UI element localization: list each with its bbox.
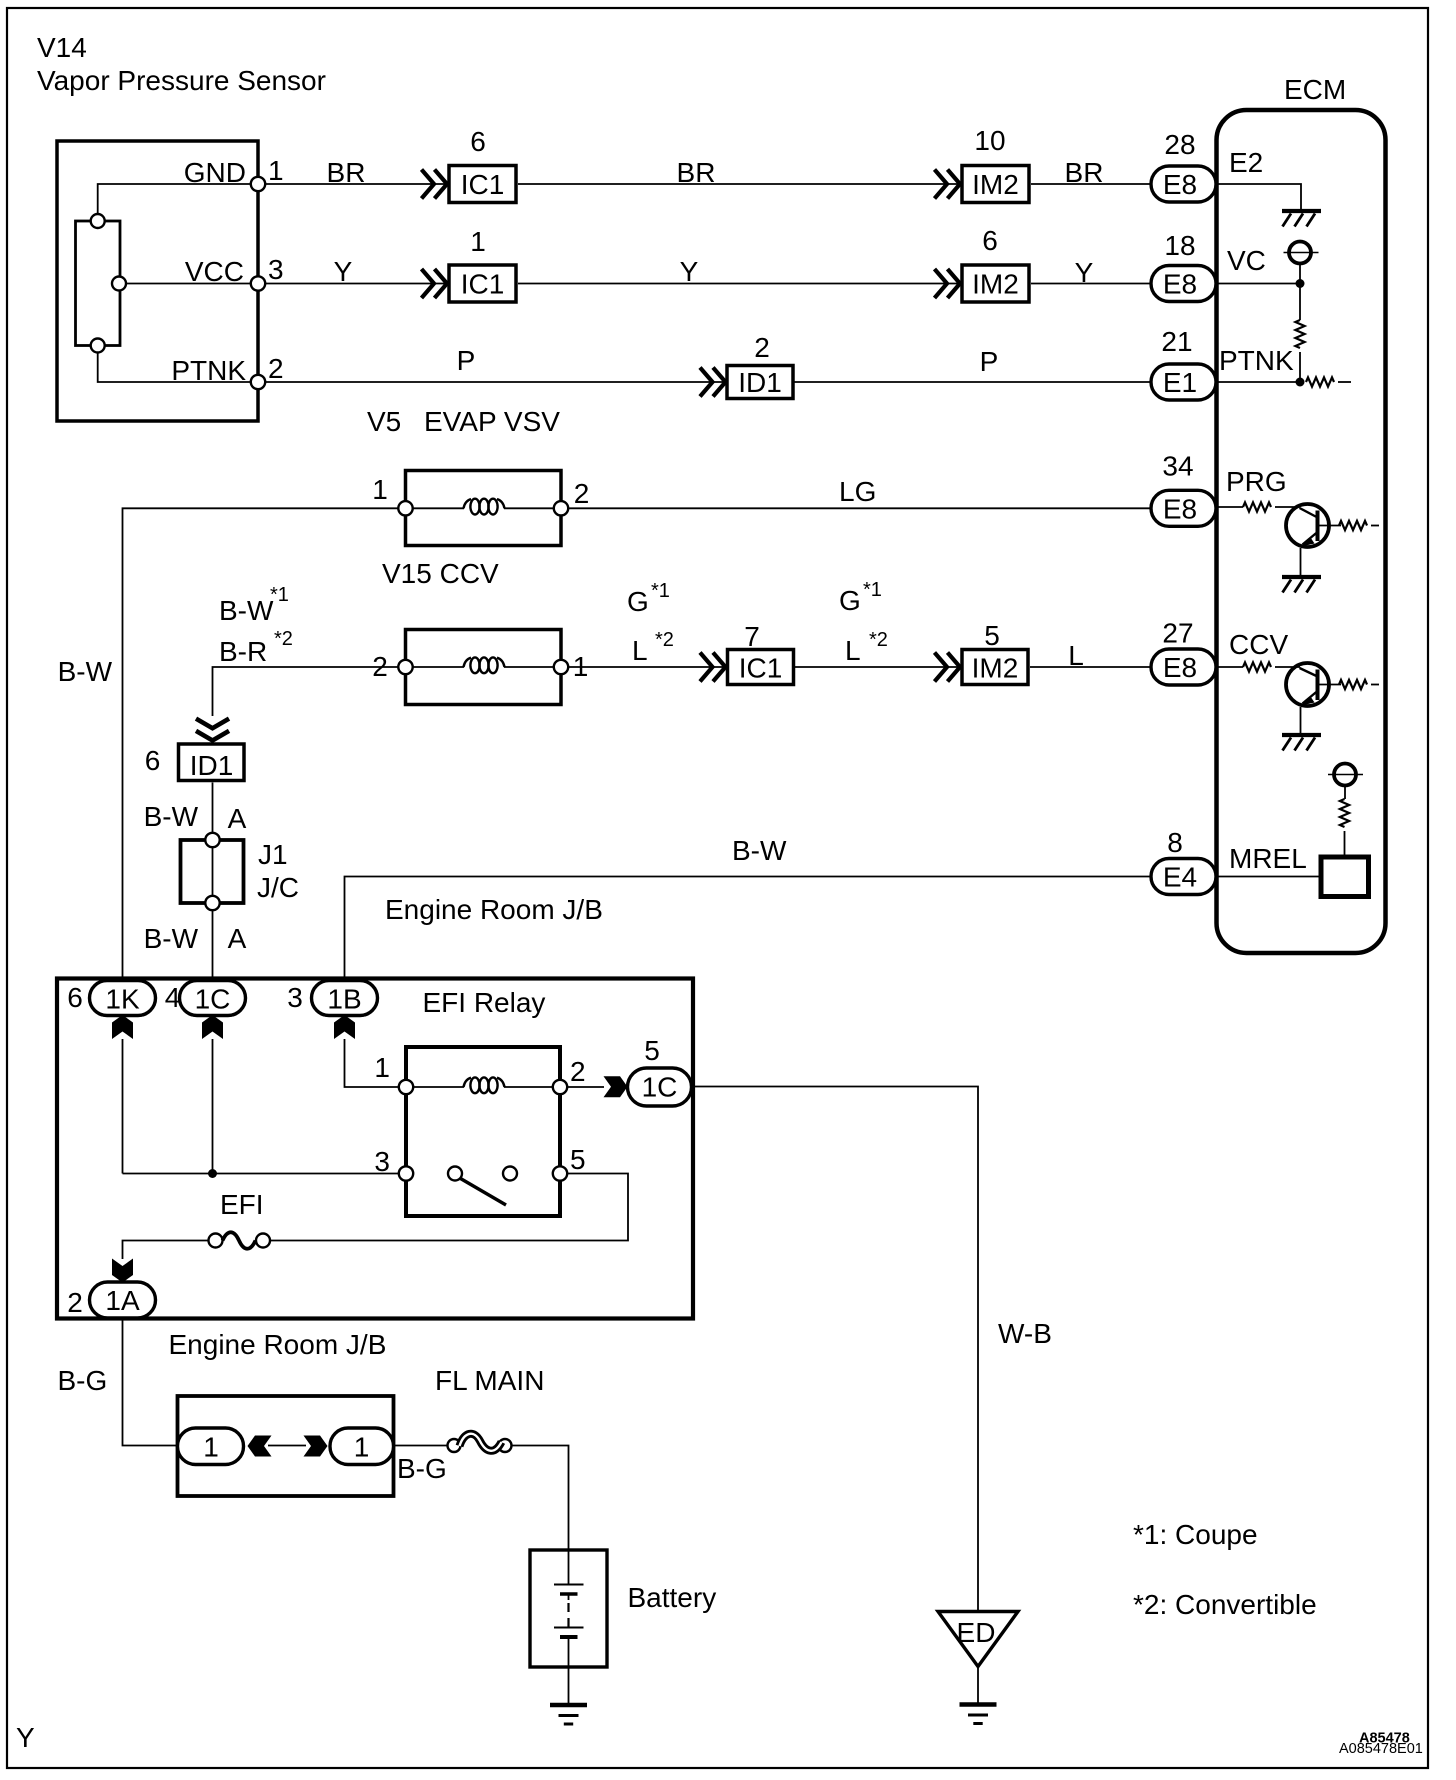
svg-text:Engine Room J/B: Engine Room J/B bbox=[169, 1329, 387, 1360]
ECM box bbox=[1217, 110, 1386, 953]
solenoid V5 pin 1 bbox=[398, 501, 412, 515]
solenoid V15 pin 2 bbox=[398, 660, 412, 674]
wire EFI fuse to 1A bbox=[123, 1241, 209, 1260]
wire IC1 to IM2 row2 bbox=[518, 283, 960, 285]
wire IC1 to IM2 row1 bbox=[518, 183, 960, 185]
svg-text:3: 3 bbox=[268, 254, 284, 285]
connector IC1 box row1 bbox=[449, 166, 516, 203]
wire E2 internal bbox=[1216, 184, 1301, 209]
svg-text:18: 18 bbox=[1164, 230, 1195, 261]
svg-text:1: 1 bbox=[268, 155, 284, 186]
connector IM2 box CCV bbox=[962, 650, 1028, 685]
solenoid V5 pin 2 bbox=[554, 501, 568, 515]
junction dot VC bbox=[1296, 279, 1305, 288]
svg-text:Engine Room J/B: Engine Room J/B bbox=[385, 894, 603, 925]
relay coil bbox=[464, 1077, 505, 1093]
connector arrows into IC1 CCV bbox=[700, 653, 726, 682]
svg-text:Y: Y bbox=[16, 1722, 35, 1753]
svg-text:E4: E4 bbox=[1163, 862, 1197, 893]
wire GND to IC1 bbox=[265, 183, 447, 185]
svg-text:*2: Convertible: *2: Convertible bbox=[1133, 1589, 1317, 1620]
wire IM2 to E8 CCV bbox=[1030, 666, 1151, 668]
internal resistor PRG base bbox=[1243, 502, 1271, 511]
chassis ground E2 bbox=[1282, 211, 1321, 227]
solenoid V5 coil bbox=[464, 499, 505, 515]
svg-text:21: 21 bbox=[1161, 326, 1192, 357]
svg-text:A: A bbox=[228, 923, 247, 954]
solenoid V5 coil wires bbox=[413, 507, 464, 509]
svg-text:1: 1 bbox=[354, 1432, 370, 1463]
svg-text:J1: J1 bbox=[258, 839, 288, 870]
earth ground ED bbox=[960, 1705, 997, 1724]
svg-text:1: 1 bbox=[374, 1052, 390, 1083]
svg-text:Y: Y bbox=[334, 256, 353, 287]
svg-text:PTNK: PTNK bbox=[1219, 345, 1294, 376]
junction dot 1C column bbox=[208, 1169, 217, 1178]
relay coil wires bbox=[413, 1086, 464, 1088]
svg-text:1B: 1B bbox=[327, 984, 361, 1015]
connector arrows into IM2 row1 bbox=[935, 170, 961, 199]
svg-text:2: 2 bbox=[268, 353, 284, 384]
svg-text:PTNK: PTNK bbox=[171, 355, 246, 386]
svg-text:J/C: J/C bbox=[257, 872, 299, 903]
wire 1K to relay pin 3 bbox=[123, 1173, 400, 1175]
svg-text:Battery: Battery bbox=[628, 1582, 717, 1613]
svg-text:E8: E8 bbox=[1163, 652, 1197, 683]
sensor V14 outer box bbox=[57, 141, 258, 421]
wire IM2 to E8 row2 bbox=[1031, 283, 1151, 285]
svg-text:28: 28 bbox=[1164, 129, 1195, 160]
svg-text:34: 34 bbox=[1162, 451, 1193, 482]
solenoid V15 coil bbox=[464, 657, 505, 673]
svg-text:EFI: EFI bbox=[220, 1189, 264, 1220]
sensor element terminal top bbox=[91, 214, 105, 228]
internal resistor VC-PTNK bbox=[1299, 284, 1301, 321]
solenoid V15 coil wires bbox=[413, 666, 464, 668]
sensor element terminal bottom bbox=[91, 339, 105, 353]
solenoid V15 box bbox=[406, 630, 562, 705]
connector oval E1 bbox=[1151, 364, 1216, 400]
connector ID1 box row3 bbox=[727, 366, 793, 399]
sensor pin 1 bbox=[251, 177, 265, 191]
wire PTNK internal bbox=[1216, 381, 1300, 383]
svg-text:3: 3 bbox=[287, 982, 303, 1013]
svg-text:FL MAIN: FL MAIN bbox=[435, 1365, 544, 1396]
wire relay pin 2 to 1C-5 bbox=[567, 1086, 604, 1088]
svg-text:BR: BR bbox=[677, 157, 716, 188]
junction J1 J/C box bbox=[181, 840, 244, 903]
ED ground triangle bbox=[938, 1612, 1018, 1667]
MREL coil wire up bbox=[1344, 831, 1346, 857]
connector arrows into ID1-6 bbox=[196, 719, 229, 741]
svg-text:GND: GND bbox=[184, 157, 246, 188]
svg-text:CCV: CCV bbox=[1229, 629, 1288, 660]
connector oval E8 row LG bbox=[1151, 490, 1216, 526]
fuse EFI bbox=[209, 1232, 271, 1249]
svg-text:*2: *2 bbox=[274, 628, 293, 650]
internal resistor CCV base bbox=[1243, 662, 1271, 671]
svg-text:3: 3 bbox=[374, 1146, 390, 1177]
svg-text:W-B: W-B bbox=[998, 1318, 1052, 1349]
svg-text:G: G bbox=[627, 586, 649, 617]
svg-text:IM2: IM2 bbox=[972, 169, 1019, 200]
junction dot PTNK bbox=[1296, 378, 1305, 387]
FL MAIN box bbox=[178, 1396, 394, 1496]
MREL power symbol circle bbox=[1334, 764, 1356, 786]
sensor element terminal mid bbox=[112, 277, 126, 291]
arrow into 1C-5 bbox=[604, 1076, 628, 1097]
wire V15 to IC1 CCV row bbox=[568, 666, 725, 668]
connector arrows into IC1 row1 bbox=[422, 170, 448, 199]
svg-text:27: 27 bbox=[1162, 618, 1193, 649]
svg-text:1K: 1K bbox=[105, 984, 140, 1015]
solenoid V15 pin 1 bbox=[554, 660, 568, 674]
battery internals bbox=[554, 1550, 584, 1703]
wire VCC to IC1 bbox=[265, 283, 447, 285]
relay switch blade bbox=[461, 1179, 507, 1206]
transistor CCV bbox=[1286, 663, 1341, 706]
chassis ground PRG bbox=[1282, 577, 1321, 593]
wire CCV emitter bbox=[1300, 707, 1302, 734]
svg-text:P: P bbox=[980, 346, 999, 377]
wire V5 to E8 row LG bbox=[568, 507, 1151, 509]
junction J1 terminal top bbox=[205, 833, 219, 847]
internal resistor PRG collector bbox=[1339, 521, 1367, 530]
wire J1 to 1C bbox=[212, 910, 214, 981]
wire B-W left vertical bbox=[123, 508, 399, 980]
svg-text:6: 6 bbox=[145, 745, 161, 776]
svg-text:P: P bbox=[457, 345, 476, 376]
svg-text:B-W: B-W bbox=[219, 595, 274, 626]
connector IM2 box row1 bbox=[962, 166, 1029, 203]
relay pin 3 bbox=[399, 1166, 413, 1180]
wire ED apex bbox=[977, 1667, 979, 1704]
svg-text:A: A bbox=[228, 803, 247, 834]
svg-text:A085478E01: A085478E01 bbox=[1339, 1741, 1423, 1757]
svg-text:BR: BR bbox=[1065, 157, 1104, 188]
junction J1 terminal bottom bbox=[205, 896, 219, 910]
svg-text:VCC: VCC bbox=[185, 256, 244, 287]
arrow into 1C bbox=[202, 1015, 223, 1039]
connector IM2 box row2 bbox=[962, 265, 1029, 302]
svg-text:V15 CCV: V15 CCV bbox=[382, 558, 499, 589]
fusible link FL MAIN bbox=[448, 1434, 512, 1452]
svg-text:8: 8 bbox=[1167, 827, 1183, 858]
wire 1A to FL MAIN bbox=[123, 1318, 178, 1446]
wire MREL internal bbox=[1216, 876, 1321, 878]
wire PRG internal bbox=[1216, 506, 1243, 508]
svg-text:7: 7 bbox=[744, 621, 760, 652]
svg-text:B-W: B-W bbox=[58, 656, 113, 687]
svg-text:ED: ED bbox=[957, 1617, 996, 1648]
svg-text:ID1: ID1 bbox=[190, 750, 234, 781]
connector oval 1C-5 bbox=[628, 1068, 692, 1106]
svg-text:Y: Y bbox=[680, 256, 699, 287]
svg-text:ECM: ECM bbox=[1284, 74, 1346, 105]
svg-text:MREL: MREL bbox=[1229, 843, 1307, 874]
svg-text:E8: E8 bbox=[1163, 169, 1197, 200]
chassis ground CCV bbox=[1282, 735, 1321, 751]
svg-text:1C: 1C bbox=[642, 1072, 678, 1103]
wire relay pin 5 to EFI fuse bbox=[270, 1174, 628, 1241]
solenoid V5 box bbox=[406, 471, 562, 546]
connector oval E8 row1 bbox=[1151, 166, 1216, 202]
svg-text:PRG: PRG bbox=[1226, 466, 1287, 497]
arrow into 1A bbox=[112, 1259, 133, 1283]
svg-text:V14: V14 bbox=[37, 32, 87, 63]
wire between FL arrows bbox=[268, 1445, 306, 1447]
svg-text:L: L bbox=[632, 635, 648, 666]
svg-text:10: 10 bbox=[974, 125, 1005, 156]
connector oval 1B bbox=[312, 981, 378, 1016]
arrow right FL bbox=[304, 1436, 328, 1457]
svg-text:*1: *1 bbox=[651, 580, 670, 602]
connector oval FL-1 right bbox=[330, 1428, 394, 1465]
VC power symbol circle bbox=[1289, 242, 1311, 264]
sensor pin 3 bbox=[251, 276, 265, 290]
svg-text:IM2: IM2 bbox=[972, 653, 1019, 684]
svg-text:E8: E8 bbox=[1163, 269, 1197, 300]
wire IC1 to IM2 CCV bbox=[795, 666, 960, 668]
relay pin 2 bbox=[553, 1080, 567, 1094]
earth ground battery bbox=[550, 1705, 587, 1724]
svg-text:E1: E1 bbox=[1163, 367, 1197, 398]
svg-text:2: 2 bbox=[574, 478, 590, 509]
internal resistor PTNK right bbox=[1306, 377, 1334, 386]
connector oval FL-1 left bbox=[178, 1428, 244, 1465]
svg-text:*1: *1 bbox=[863, 579, 882, 601]
wire MREL B-W bbox=[345, 877, 1152, 981]
connector oval 1K bbox=[90, 981, 156, 1016]
sensor pin 2 bbox=[251, 375, 265, 389]
svg-text:VC: VC bbox=[1227, 245, 1266, 276]
connector IC1 box CCV bbox=[728, 650, 794, 685]
svg-text:B-W: B-W bbox=[144, 801, 199, 832]
svg-text:*1: Coupe: *1: Coupe bbox=[1133, 1519, 1258, 1550]
MREL relay box bbox=[1321, 857, 1369, 897]
svg-text:IC1: IC1 bbox=[461, 269, 505, 300]
relay switch contact a bbox=[448, 1167, 462, 1181]
svg-text:Vapor Pressure Sensor: Vapor Pressure Sensor bbox=[37, 65, 326, 96]
sensor element wires bbox=[98, 184, 251, 215]
svg-text:2: 2 bbox=[570, 1056, 586, 1087]
battery box bbox=[530, 1550, 607, 1667]
svg-text:6: 6 bbox=[982, 225, 998, 256]
svg-text:2: 2 bbox=[754, 332, 770, 363]
connector oval 1C bbox=[180, 981, 246, 1016]
connector ID1 box -6 bbox=[179, 744, 245, 781]
svg-text:1: 1 bbox=[203, 1432, 219, 1463]
svg-text:EVAP VSV: EVAP VSV bbox=[424, 406, 560, 437]
wire 1K down bbox=[122, 1039, 124, 1174]
relay pin 5 bbox=[553, 1166, 567, 1180]
internal resistor MREL bbox=[1340, 799, 1349, 827]
svg-text:6: 6 bbox=[67, 982, 83, 1013]
svg-text:IM2: IM2 bbox=[972, 269, 1019, 300]
svg-text:L: L bbox=[1068, 640, 1084, 671]
svg-text:1: 1 bbox=[470, 226, 486, 257]
connector oval E8 CCV bbox=[1151, 649, 1216, 685]
connector oval 1A bbox=[90, 1282, 156, 1318]
connector arrows into ID1 bbox=[700, 368, 726, 397]
svg-text:1: 1 bbox=[372, 474, 388, 505]
transistor PRG bbox=[1286, 504, 1341, 547]
svg-text:B-R: B-R bbox=[219, 636, 267, 667]
wire ID1 to E1 bbox=[794, 381, 1151, 383]
wire 1C-5 to W-B down bbox=[692, 1087, 979, 1612]
svg-text:6: 6 bbox=[470, 126, 486, 157]
svg-text:5: 5 bbox=[984, 620, 1000, 651]
svg-text:*2: *2 bbox=[869, 629, 888, 651]
svg-text:LG: LG bbox=[839, 476, 876, 507]
svg-text:B-G: B-G bbox=[58, 1365, 108, 1396]
arrow into 1B bbox=[334, 1015, 355, 1039]
svg-text:*2: *2 bbox=[655, 629, 674, 651]
connector oval E8 row2 bbox=[1151, 266, 1216, 302]
svg-text:B-W: B-W bbox=[144, 923, 199, 954]
svg-text:BR: BR bbox=[327, 157, 366, 188]
connector IC1 box row2 bbox=[449, 265, 516, 302]
connector arrows into IC1 row2 bbox=[422, 269, 448, 298]
wire IM2 to E8 row1 bbox=[1031, 183, 1151, 185]
svg-text:V5: V5 bbox=[367, 406, 401, 437]
svg-text:B-G: B-G bbox=[397, 1453, 447, 1484]
svg-text:2: 2 bbox=[67, 1287, 83, 1318]
svg-text:5: 5 bbox=[570, 1144, 586, 1175]
svg-text:Y: Y bbox=[1075, 257, 1094, 288]
connector arrows into IM2 row2 bbox=[935, 269, 961, 298]
svg-text:E8: E8 bbox=[1163, 493, 1197, 524]
svg-text:1C: 1C bbox=[195, 984, 231, 1015]
svg-text:IC1: IC1 bbox=[739, 653, 783, 684]
arrow left FL bbox=[248, 1436, 272, 1457]
svg-text:E2: E2 bbox=[1229, 147, 1263, 178]
internal resistor CCV collector bbox=[1339, 680, 1367, 689]
wire VC internal bbox=[1216, 283, 1300, 285]
svg-text:B-W: B-W bbox=[732, 835, 787, 866]
EFI relay box bbox=[406, 1047, 560, 1216]
svg-text:*1: *1 bbox=[270, 584, 289, 606]
wire 1C down bbox=[212, 1039, 214, 1174]
wire CCV internal bbox=[1216, 666, 1243, 668]
wire V15 to ID1-6 bbox=[213, 667, 399, 716]
wire PRG emitter bbox=[1300, 548, 1302, 576]
svg-text:IC1: IC1 bbox=[461, 169, 505, 200]
svg-text:ID1: ID1 bbox=[738, 367, 782, 398]
wire ID1 to J1 bbox=[212, 783, 214, 834]
svg-text:EFI Relay: EFI Relay bbox=[423, 987, 546, 1018]
svg-text:5: 5 bbox=[644, 1035, 660, 1066]
relay switch contact b bbox=[503, 1167, 517, 1181]
svg-text:L: L bbox=[845, 635, 861, 666]
wire fusible link to battery bbox=[512, 1446, 569, 1551]
wire PTNK to ID1 bbox=[265, 381, 725, 383]
sensor element box bbox=[76, 221, 121, 346]
Engine Room J/B box bbox=[57, 979, 693, 1319]
svg-text:G: G bbox=[839, 585, 861, 616]
connector arrows into IM2 CCV bbox=[935, 653, 961, 682]
arrow into 1K bbox=[112, 1015, 133, 1039]
wire FL right to fusible link bbox=[394, 1445, 448, 1447]
relay pin 1 bbox=[399, 1080, 413, 1094]
svg-text:1A: 1A bbox=[105, 1285, 140, 1316]
wire 1B to relay pin 1 bbox=[345, 1039, 400, 1087]
connector oval E4 bbox=[1151, 859, 1216, 895]
